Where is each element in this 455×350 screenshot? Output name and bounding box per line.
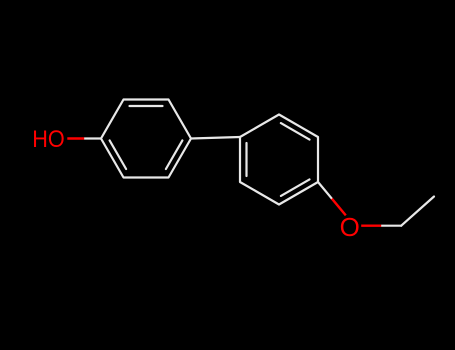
svg-text:HO: HO bbox=[32, 126, 64, 153]
svg-text:O: O bbox=[340, 214, 360, 242]
